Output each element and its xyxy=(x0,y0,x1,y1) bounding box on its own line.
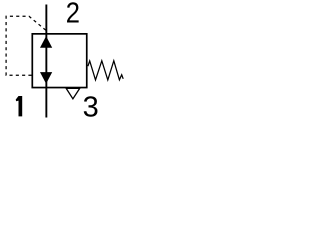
svg-text:3: 3 xyxy=(83,91,99,123)
svg-text:2: 2 xyxy=(66,0,80,29)
